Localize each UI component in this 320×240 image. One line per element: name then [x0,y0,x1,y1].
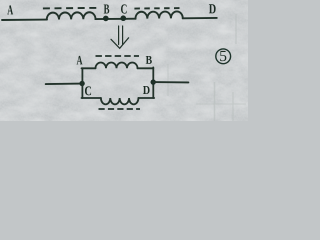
core dashed line over L2 [134,7,180,9]
core dashed line below bottom coil [99,108,141,110]
core dashed line above top coil [96,55,140,57]
wire: right vertical of loop [152,67,154,98]
inductor L3 on top branch (humps up) [96,63,138,69]
inductor L2 (coil, 4 humps) [135,11,182,18]
node label C [121,4,127,13]
node label D (bottom circuit) [143,86,150,94]
node label B [104,5,110,14]
wire: left vertical of loop [81,68,83,98]
wire: top rail left stub [82,67,96,69]
inductor L4 on bottom branch (humps down) [101,98,139,104]
node label C (bottom circuit) [85,86,91,95]
transformation arrow (double-shaft down arrow) [111,26,129,48]
junction dot at right node [151,79,156,84]
wire A to L1 [2,19,47,21]
node label B (bottom circuit) [146,56,152,64]
junction dot B [103,16,109,22]
junction dot C [120,15,126,21]
bottom parallel circuit: L3 and L4 between nodes [46,56,189,109]
wire L1 to L2 (through nodes B and C) [95,18,135,20]
circled number 5 [216,49,231,64]
wire: left lead [46,83,82,86]
node label A [7,5,13,14]
paper background [0,0,248,121]
node label D [209,4,216,13]
wire: top rail right stub [138,67,154,69]
top series circuit A-L1-B-C-L2-D (slightly tilted scan) [2,7,217,22]
wire: right lead [153,81,188,83]
core dashed line over L1 [43,7,96,10]
inductor L1 (coil, 4 humps) [47,12,96,19]
junction dot at left node [79,81,84,86]
wire: bottom rail left stub [82,97,101,99]
node label A (bottom circuit) [77,56,83,64]
wire L2 to D [183,17,217,19]
wire: bottom rail right stub [138,97,154,99]
faint bleed-through ghost marks (decorative scan artifacts) [168,14,246,121]
